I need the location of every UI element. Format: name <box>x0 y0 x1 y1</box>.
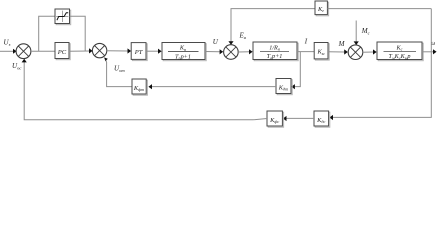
wire Km to A4 <box>328 49 348 54</box>
summing junction A3 (EMF subtract) <box>224 45 239 60</box>
wire A2 to PT <box>107 48 131 53</box>
summing junction A2 (current loop error) <box>92 43 106 57</box>
wire A3 to armature <box>238 49 252 54</box>
wire saturation output down to main line <box>70 16 86 51</box>
wire Kdc to Kfc <box>283 116 314 121</box>
wire A4 to mech block <box>363 49 377 54</box>
node label I <box>304 38 308 46</box>
node label Uot <box>114 65 125 74</box>
wire PT to converter <box>146 49 162 54</box>
converter block Kp/(Tp p+1) <box>162 43 206 61</box>
node label Uoc <box>12 62 21 71</box>
filter block Kft <box>132 79 147 95</box>
filter block Kfc <box>267 111 284 127</box>
node label Uz <box>4 39 11 48</box>
saturation block NL1 <box>55 9 71 25</box>
gain block Ke <box>315 1 329 16</box>
node label Mc <box>361 27 370 36</box>
wire Kdt to Kft <box>148 84 276 89</box>
wire converter to A3 <box>205 49 223 54</box>
wire right vertical feedback bus <box>329 9 431 121</box>
svg-text:Тпp+1: Тпp+1 <box>175 53 191 60</box>
regulator PC <box>55 43 70 60</box>
node label Eya <box>239 32 246 41</box>
sensor block Kdt <box>276 79 292 95</box>
wire branch up to saturation <box>39 16 55 51</box>
wire speed feedback Kfc to A1 <box>22 59 267 120</box>
sensor block Kdc <box>314 111 330 127</box>
wire mech output to right edge <box>422 49 437 54</box>
wire current tap down to Kdt <box>291 52 300 90</box>
wire PC to A2 <box>69 48 93 53</box>
svg-text:РС: РС <box>57 49 67 56</box>
svg-text:М: М <box>338 40 346 48</box>
mechanical block Kc/(Tm Ke Km p) <box>377 42 423 61</box>
wire EMF feedback line from Ke <box>228 9 315 45</box>
wire Mc load torque input <box>354 21 359 46</box>
wire input Uz <box>0 49 17 54</box>
node label M <box>338 40 346 48</box>
wire armature to Km with current tap <box>297 51 314 53</box>
svg-text:РТ: РТ <box>134 49 144 56</box>
node label U <box>213 38 219 46</box>
wire A1 to PC <box>31 50 55 52</box>
svg-text:Тяp+1: Тяp+1 <box>267 53 283 60</box>
regulator PT <box>131 43 147 61</box>
wire current feedback Uot into A2 <box>104 57 132 86</box>
summing junction A1 (speed error) <box>16 44 31 59</box>
node label omega <box>431 41 435 47</box>
armature block (1/Rya)/(Tya p+1) <box>253 42 298 61</box>
gain block Km <box>314 43 329 61</box>
wire Ke to right vertical <box>327 8 431 10</box>
summing junction A4 (torque minus load) <box>348 45 363 60</box>
